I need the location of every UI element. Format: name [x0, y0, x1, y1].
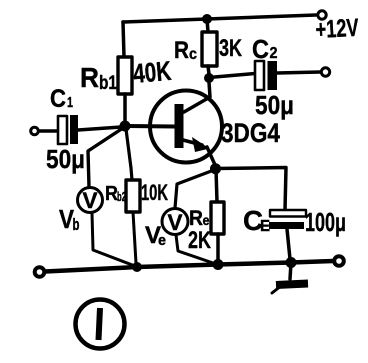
- voltmeter Vb: [78, 188, 103, 214]
- svg-text:e: e: [158, 232, 166, 249]
- figure number 1: [76, 300, 125, 349]
- wire base: [125, 124, 175, 129]
- wire input to C1: [39, 129, 58, 133]
- svg-text:10K: 10K: [141, 180, 168, 205]
- wire emitter node to Re: [216, 169, 217, 202]
- terminal bottom right: [334, 256, 344, 266]
- label Rb1: [80, 62, 117, 94]
- ground: [272, 263, 308, 293]
- svg-text:E: E: [260, 218, 270, 235]
- svg-text:b2: b2: [117, 189, 126, 204]
- label Rb2: [105, 183, 126, 205]
- svg-text:50μ: 50μ: [46, 144, 85, 174]
- wire from rail to Rb1: [123, 22, 124, 57]
- terminal bottom left: [35, 267, 45, 277]
- node rail junction Re: [213, 259, 224, 270]
- svg-text:C: C: [252, 34, 269, 64]
- svg-text:100μ: 100μ: [305, 207, 346, 237]
- label Re: [189, 207, 210, 230]
- node collector junction: [204, 73, 214, 83]
- voltmeter Ve: [162, 209, 188, 236]
- label C1: [50, 85, 73, 113]
- svg-text:+12V: +12V: [315, 14, 360, 44]
- resistor Rb1: [118, 57, 132, 94]
- svg-text:2K: 2K: [188, 227, 211, 254]
- wire emitter node to CE branch: [216, 168, 287, 211]
- transistor Q1 circle: [150, 91, 222, 163]
- svg-text:R: R: [80, 62, 99, 93]
- transistor emitter lead with arrow: [183, 137, 216, 166]
- terminal output: [321, 68, 329, 76]
- wire CE to ground rail: [287, 229, 290, 259]
- svg-text:e: e: [203, 212, 210, 228]
- svg-text:C: C: [50, 85, 66, 113]
- svg-text:b: b: [73, 215, 80, 234]
- svg-text:b1: b1: [99, 73, 117, 94]
- node top rail junction: [202, 14, 212, 24]
- wire Rb1 to base node: [123, 94, 127, 122]
- wire collector lead: [184, 82, 210, 112]
- capacitor C2: [255, 61, 277, 90]
- svg-text:V: V: [168, 210, 183, 235]
- transistor base bar: [175, 104, 184, 148]
- resistor Rc: [202, 32, 217, 66]
- label Rc: [174, 37, 197, 64]
- capacitor C1: [58, 115, 78, 144]
- svg-text:R: R: [174, 37, 189, 64]
- wire base node to Rb2: [126, 129, 132, 180]
- svg-text:c: c: [189, 46, 197, 63]
- wire rail to Rc: [207, 19, 208, 32]
- svg-text:3K: 3K: [219, 35, 242, 62]
- label CE: [243, 205, 270, 236]
- terminal input: [31, 127, 39, 135]
- node base junction: [120, 121, 131, 132]
- wire bottom ground rail: [45, 261, 333, 272]
- label C2: [252, 34, 278, 64]
- wire Vb meter to ground rail: [92, 213, 135, 266]
- label Ve: [145, 222, 166, 249]
- resistor Re: [211, 202, 224, 234]
- terminal +12V: [318, 11, 326, 19]
- wire emitter node to Ve meter: [175, 170, 214, 208]
- wire Rc to collector node: [208, 66, 209, 74]
- wire base node to Vb meter: [88, 128, 123, 187]
- svg-text:2: 2: [270, 45, 278, 62]
- svg-text:V: V: [83, 188, 98, 213]
- resistor Rb2: [126, 180, 140, 212]
- svg-text:40K: 40K: [132, 56, 173, 89]
- wire Re to ground rail: [216, 234, 220, 262]
- wire Rb2 to ground rail: [133, 212, 136, 263]
- svg-text:50μ: 50μ: [255, 90, 294, 120]
- node ground rail junction: [286, 257, 297, 268]
- wire top supply rail: [123, 15, 316, 22]
- node rail junction Rb2: [132, 262, 142, 272]
- wire Ve meter to ground rail: [176, 235, 216, 264]
- node emitter junction: [210, 163, 221, 174]
- capacitor CE: [269, 210, 306, 229]
- wire collector node to C2: [209, 74, 255, 78]
- wire C1 to base node: [78, 127, 121, 130]
- label Vb: [59, 204, 80, 234]
- svg-text:1: 1: [67, 94, 73, 111]
- wire C2 to output terminal: [277, 72, 320, 73]
- svg-text:3DG4: 3DG4: [221, 118, 280, 148]
